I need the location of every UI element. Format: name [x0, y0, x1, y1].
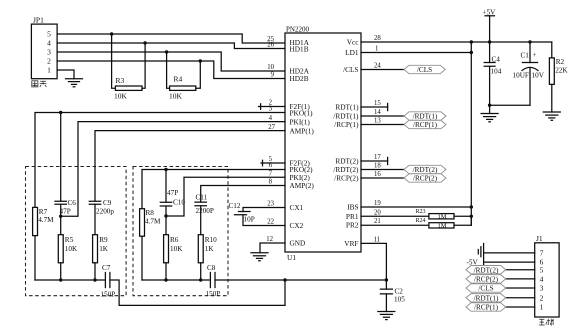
svg-text:10K: 10K	[170, 245, 183, 253]
svg-text:PKO(1): PKO(1)	[290, 108, 314, 117]
svg-text:/RDT(1): /RDT(1)	[413, 113, 438, 121]
svg-text:2200p: 2200p	[96, 208, 114, 216]
U1 right pin numbers	[374, 35, 382, 243]
svg-text:R2: R2	[556, 58, 565, 66]
svg-text:LD1: LD1	[345, 48, 359, 57]
svg-text:C1: C1	[521, 51, 530, 59]
svg-text:C4: C4	[492, 55, 501, 63]
ground (C2)	[378, 312, 395, 320]
svg-text:1K: 1K	[99, 245, 109, 253]
net flag /RCP(2) (pin 16)	[361, 174, 446, 183]
svg-text:PR2: PR2	[346, 221, 359, 230]
dashed filter box 1	[26, 167, 127, 296]
capacitor C10 47P	[160, 170, 185, 217]
svg-text:10: 10	[267, 64, 274, 71]
svg-text:CX1: CX1	[290, 203, 304, 212]
svg-text:1M: 1M	[438, 223, 447, 230]
wire JP1 pin2 to U1 pin9	[57, 61, 285, 79]
resistor R5 10K	[58, 216, 78, 280]
capacitor C9 2200p	[89, 199, 114, 235]
resistor R8 4.7M	[140, 209, 161, 280]
net flag /RDT(2) (pin 18)	[361, 165, 446, 174]
svg-text:R5: R5	[65, 236, 74, 244]
svg-text:5: 5	[540, 265, 544, 274]
svg-text:3: 3	[540, 284, 544, 293]
svg-text:26: 26	[267, 42, 274, 49]
svg-text:RDT(1): RDT(1)	[335, 103, 359, 112]
node LD1/rail	[470, 51, 473, 54]
dashed filter box 2	[133, 167, 228, 296]
svg-text:/RDT(2): /RDT(2)	[474, 266, 499, 274]
svg-text:1M: 1M	[438, 214, 447, 221]
svg-text:4: 4	[269, 115, 273, 122]
svg-text:C6: C6	[68, 199, 77, 207]
svg-text:HD2B: HD2B	[290, 74, 309, 83]
svg-text:10P: 10P	[244, 216, 255, 224]
node pin3/C6	[59, 111, 62, 114]
svg-text:10UF: 10UF	[513, 72, 529, 80]
svg-text:R8: R8	[146, 209, 155, 217]
resistor R7 4.7M	[33, 207, 55, 280]
svg-text:/RCP(1): /RCP(1)	[474, 304, 499, 312]
capacitor C6 47P	[55, 113, 76, 217]
node R9 bottom	[93, 278, 96, 281]
net flag /CLS (pin 24)	[361, 65, 445, 74]
svg-text:+: +	[533, 51, 537, 59]
svg-text:C2: C2	[395, 288, 404, 296]
net flag /RDT(1) (J1 pin2)	[466, 294, 535, 303]
svg-text:/RCP(2): /RCP(2)	[413, 175, 438, 183]
svg-text:16: 16	[374, 171, 381, 178]
svg-text:8: 8	[269, 179, 273, 186]
svg-text:C12: C12	[229, 202, 241, 210]
svg-text:JP1: JP1	[33, 15, 44, 24]
svg-text:2: 2	[540, 293, 544, 302]
svg-text:47P: 47P	[167, 189, 178, 197]
net flag /RCP(1) (J1 pin1)	[466, 303, 535, 312]
wire JP1 pin1 to ground	[57, 70, 74, 79]
svg-text:27: 27	[268, 124, 275, 131]
svg-text:C7: C7	[102, 264, 111, 272]
svg-text:13: 13	[374, 118, 381, 125]
wire U1 pin7 PKI(2) to C10/R6 node	[166, 177, 285, 216]
pin 15 stub RDT(1)	[361, 103, 388, 110]
wire U1 pin27 AMP(1) to C9	[95, 131, 285, 202]
svg-text:10K: 10K	[65, 245, 78, 253]
svg-text:/RCP(1): /RCP(1)	[334, 120, 359, 129]
svg-text:150P: 150P	[206, 290, 221, 298]
svg-text:47P: 47P	[60, 208, 71, 216]
power +5V	[483, 9, 497, 42]
resistor R3 10K	[112, 34, 146, 100]
svg-text:GND: GND	[290, 239, 306, 248]
wire C7 out to lower bus	[110, 280, 285, 305]
svg-text:CX2: CX2	[290, 221, 304, 230]
svg-text:/CLS: /CLS	[343, 65, 358, 74]
wire C8 out along bus to C2 node	[215, 279, 386, 281]
U1 left pin names	[290, 38, 315, 248]
net flag /RCP(2) (J1 pin4)	[466, 275, 535, 284]
svg-text:VRF: VRF	[344, 239, 358, 248]
node R5 bottom	[59, 278, 62, 281]
svg-text:R24: R24	[416, 218, 426, 224]
wire Vcc pin28 to +5V rail	[361, 41, 552, 43]
svg-text:AMP(2): AMP(2)	[290, 181, 315, 190]
wire J1 pin6 to -5V	[484, 261, 535, 263]
U1 left pin numbers	[266, 36, 275, 243]
svg-text:AMP(1): AMP(1)	[290, 126, 315, 135]
svg-text:/RDT(2): /RDT(2)	[413, 166, 438, 174]
svg-text:1: 1	[47, 66, 51, 75]
resistor R6 10K	[164, 216, 184, 280]
svg-text:R10: R10	[205, 236, 217, 244]
svg-text:17: 17	[374, 154, 381, 161]
wire JP1 pin5 to U1 pin25	[57, 34, 285, 43]
wire IBS pin19 to rail	[361, 206, 471, 208]
svg-text:R9: R9	[99, 236, 108, 244]
capacitor C8 150P (series)	[206, 264, 221, 298]
svg-text:/RDT(1): /RDT(1)	[474, 295, 499, 303]
svg-text:1: 1	[375, 46, 378, 53]
svg-text:C9: C9	[103, 199, 112, 207]
wire box2 bottom rail	[142, 279, 210, 281]
IC U1 PN2200	[285, 26, 361, 262]
svg-text:Vcc: Vcc	[347, 38, 360, 47]
node VRF/C2/bus	[385, 278, 388, 281]
node junction line5/R3	[110, 32, 113, 35]
svg-text:1: 1	[540, 303, 544, 312]
power -5V	[467, 258, 479, 266]
svg-text:19: 19	[374, 200, 381, 207]
svg-text:9: 9	[271, 72, 275, 79]
node +5V/Vcc line	[488, 40, 491, 43]
pin 5 stub F2F(2)	[261, 160, 285, 166]
net flag /CLS (J1 pin3)	[466, 284, 535, 293]
svg-text:C11: C11	[196, 194, 208, 202]
capacitor C7 150P (series)	[101, 264, 116, 299]
node C10/R6/pin7	[164, 214, 167, 217]
svg-text:2200P: 2200P	[196, 207, 214, 215]
ground (C4/C1)	[481, 105, 498, 122]
svg-text:5: 5	[47, 30, 51, 39]
svg-text:U1: U1	[287, 253, 296, 262]
svg-text:/RCP(1): /RCP(1)	[413, 121, 438, 129]
wire U1 pin12 GND to ground	[260, 243, 285, 253]
svg-text:4: 4	[47, 39, 51, 48]
node C6/R5/pin4	[59, 215, 62, 218]
capacitor C11 2200P	[195, 194, 214, 235]
wire C4/C1 bottoms	[490, 104, 530, 106]
wire U1 pin3 PKO(1) to R7/C6	[35, 113, 285, 208]
pin 2 stub F2F(1)	[259, 104, 286, 110]
node IBS/rail	[470, 205, 473, 208]
svg-text:C8: C8	[207, 264, 216, 272]
svg-text:PN2200: PN2200	[286, 26, 309, 34]
wire U1 pin8 AMP(2) to C11	[201, 186, 285, 203]
wire JP1 pin4 to U1 pin26	[57, 43, 285, 49]
svg-text:15: 15	[374, 100, 381, 107]
svg-text:/CLS: /CLS	[417, 66, 432, 74]
resistor R23 1M (PR1 pullup)	[361, 209, 471, 220]
capacitor C12 10P	[229, 202, 286, 226]
resistor R9 1K	[93, 235, 109, 280]
svg-text:28: 28	[374, 35, 381, 42]
node PR1/rail	[470, 215, 473, 218]
node junction line3/R4	[165, 50, 168, 53]
svg-text:24: 24	[374, 63, 381, 70]
net flag /RDT(2) (J1 pin5)	[466, 266, 535, 275]
svg-text:10K: 10K	[169, 91, 183, 100]
svg-text:2: 2	[47, 57, 51, 66]
svg-text:R7: R7	[39, 208, 48, 216]
svg-text:105: 105	[394, 296, 405, 304]
node junction line4/R3	[143, 41, 146, 44]
ground (R2)	[543, 112, 560, 120]
resistor R4 10K	[167, 52, 201, 100]
wire U1 pin4 PKI(1) to C6/R5 node	[61, 122, 285, 217]
svg-text:7: 7	[540, 249, 544, 258]
svg-text:R23: R23	[416, 209, 426, 215]
capacitor C2 105	[380, 280, 405, 312]
svg-text:4.7M: 4.7M	[145, 218, 161, 226]
svg-text:14: 14	[374, 109, 381, 116]
node pin6/C10	[164, 168, 167, 171]
svg-text:150P: 150P	[101, 291, 116, 299]
node C4 ground	[488, 104, 491, 107]
ground (J1 pin7, rotated)	[478, 244, 483, 266]
resistor R10 1K	[198, 235, 217, 280]
connector J1	[535, 234, 559, 317]
svg-text:R6: R6	[170, 236, 179, 244]
svg-text:23: 23	[267, 201, 274, 208]
wire JP1 pin3 to U1 pin10	[57, 52, 285, 71]
svg-text:22K: 22K	[555, 66, 568, 74]
ground (U1 GND)	[251, 253, 268, 261]
svg-text:21: 21	[374, 218, 381, 225]
svg-text:J1: J1	[536, 234, 543, 243]
svg-text:HD1B: HD1B	[290, 45, 309, 54]
ground (JP1 pin1)	[66, 79, 83, 87]
wire +5V vertical rail	[470, 42, 472, 225]
node bus junction	[283, 278, 286, 281]
net flag /RCP(1) (pin 13)	[361, 120, 446, 129]
node Vcc/rail	[470, 40, 473, 43]
svg-text:/CLS: /CLS	[478, 285, 493, 293]
connector JP1	[31, 15, 57, 78]
capacitor C4 104	[484, 42, 501, 105]
svg-text:104: 104	[491, 68, 502, 76]
svg-text:11: 11	[374, 237, 381, 244]
pin 17 stub RDT(2)	[361, 157, 388, 164]
svg-text:7: 7	[269, 170, 273, 177]
resistor R24 1M (PR2 pullup)	[361, 216, 471, 229]
node C1 top	[528, 40, 531, 43]
net flag /RDT(1) (pin 14)	[361, 112, 446, 121]
wire box1 bottom rail	[35, 279, 105, 281]
capacitor C1 10UF/10V electrolytic	[513, 42, 545, 105]
svg-text:12: 12	[266, 236, 273, 243]
svg-text:3: 3	[47, 48, 51, 57]
svg-text:10V: 10V	[532, 72, 545, 80]
svg-text:22: 22	[267, 219, 274, 226]
node R6 bottom	[164, 278, 167, 281]
svg-text:18: 18	[374, 163, 381, 170]
svg-text:PKI(1): PKI(1)	[290, 117, 311, 126]
resistor R2 22K	[549, 42, 568, 112]
svg-text:4: 4	[540, 275, 544, 284]
wire LD1 pin1 to rail	[361, 52, 471, 54]
wire U1 pin6 PKO(2) to R8/C10	[142, 170, 285, 209]
svg-text:R3: R3	[116, 76, 125, 85]
svg-text:10K: 10K	[114, 91, 128, 100]
svg-text:20: 20	[374, 210, 381, 217]
label 磁头 (magnetic head) under JP1	[32, 81, 47, 87]
node R10 bottom	[199, 278, 202, 281]
wire U1 pin11 VRF to C2	[361, 243, 386, 280]
svg-text:PR1: PR1	[346, 212, 359, 221]
svg-text:/RCP(2): /RCP(2)	[474, 276, 499, 284]
label 主机 (host) under J1	[539, 319, 553, 325]
svg-text:1K: 1K	[205, 245, 215, 253]
svg-text:R4: R4	[174, 75, 183, 84]
U1 right pin names	[333, 38, 359, 248]
wire J1 pin7 to ground	[484, 252, 535, 254]
svg-text:4.7M: 4.7M	[38, 216, 54, 224]
svg-text:IBS: IBS	[347, 203, 358, 212]
node junction line2/R4	[199, 59, 202, 62]
svg-text:/RCP(2): /RCP(2)	[334, 174, 359, 183]
